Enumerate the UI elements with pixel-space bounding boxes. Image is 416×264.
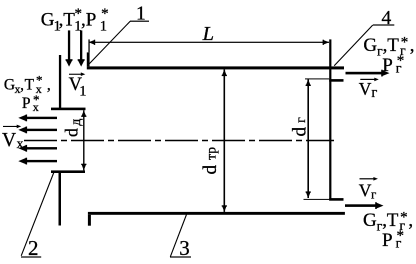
svg-text:G: G (4, 77, 15, 94)
d_g top arrowhead (306, 79, 311, 86)
label Pg* top right (382, 53, 404, 77)
svg-text:,: , (20, 77, 24, 94)
svg-text:G: G (363, 35, 377, 56)
svg-text:G: G (363, 210, 377, 231)
leader line for label 1 (89, 21, 130, 64)
svg-text:T: T (25, 77, 35, 94)
svg-text:P: P (382, 55, 393, 76)
svg-text:P: P (382, 230, 393, 251)
label Vg top right (359, 79, 378, 101)
intake lower wall (shell 2) (59, 173, 62, 226)
vector bar over Vx (3, 125, 21, 129)
svg-text:х: х (17, 136, 24, 151)
label V1 (69, 75, 87, 99)
exit flow right arrow top (346, 70, 390, 77)
leader line for label 4 (334, 25, 373, 66)
svg-text:V: V (359, 79, 372, 99)
L extension line left (88, 39, 89, 52)
secondary flow left arrow 2 (18, 127, 57, 134)
label 1 underline (130, 21, 149, 22)
vector bar over V1 (69, 72, 85, 76)
svg-text:1: 1 (79, 83, 86, 99)
exit lip bottom (329, 198, 343, 201)
end plate 4 (329, 39, 331, 200)
svg-text:L: L (202, 23, 214, 45)
svg-text:,: , (408, 210, 413, 231)
svg-text:2: 2 (28, 236, 39, 260)
intake bottom lip (51, 170, 85, 173)
svg-text:*: * (36, 72, 43, 87)
d_tr bottom arrowhead (222, 205, 227, 212)
svg-text:3: 3 (179, 236, 190, 260)
svg-text:г: г (371, 186, 376, 201)
exit lip bottom extension (304, 199, 330, 200)
primary flow down arrow a (66, 30, 73, 66)
label d_tr rotated (200, 147, 221, 175)
mixing tube bottom wall (3) (88, 212, 345, 215)
svg-text:,: , (410, 35, 415, 56)
svg-text:*: * (33, 92, 40, 107)
secondary flow left arrow 4 (18, 158, 57, 165)
L right arrowhead (323, 40, 330, 45)
dimension d_g line (307, 79, 309, 198)
label 2 underline (21, 256, 41, 257)
leader line for label 2 (21, 172, 54, 256)
label d_d rotated (62, 119, 84, 137)
mixing tube top wall (87, 66, 344, 69)
svg-text:*: * (397, 228, 405, 244)
label Gg,Tg*, top right (363, 34, 414, 59)
svg-text:V: V (359, 181, 372, 201)
vector bar over Vg bottom right (360, 177, 378, 181)
label G1,T1*,P1* (41, 6, 109, 34)
dimension L line (89, 42, 330, 43)
d_d bottom arrowhead (81, 164, 86, 171)
leader line for label 3 (170, 215, 186, 257)
primary flow down arrow b (78, 30, 85, 66)
label Vx (2, 130, 24, 151)
svg-text:4: 4 (382, 8, 392, 29)
exit lip top extension (305, 78, 329, 79)
exit lip top (329, 79, 343, 82)
d_d top arrowhead (81, 110, 86, 117)
d_tr top arrowhead (222, 69, 227, 76)
svg-text:*: * (101, 6, 109, 22)
label 3 underline (170, 256, 191, 257)
svg-text:P: P (22, 95, 31, 112)
svg-text:,: , (47, 77, 51, 94)
secondary flow left arrow 3 (18, 145, 57, 152)
label Pg* bottom right (382, 228, 404, 251)
label Vg bottom right (359, 181, 377, 202)
mixing tube top-left lip (87, 52, 90, 66)
L left arrowhead (89, 40, 96, 45)
label Gx,Tx*, left (4, 72, 51, 95)
label Px* left (22, 92, 40, 114)
svg-text:V: V (2, 130, 16, 151)
label 4 underline (373, 24, 394, 25)
svg-text:dтр: dтр (200, 147, 221, 175)
svg-text:*: * (397, 53, 405, 69)
exit flow right arrow bottom (345, 202, 384, 209)
svg-text:*: * (400, 209, 408, 225)
secondary flow left arrow 1 (18, 115, 57, 122)
svg-text:P: P (86, 10, 97, 31)
dimension d_d line (83, 110, 84, 170)
intake top lip (51, 108, 86, 111)
vector bar over Vg top right (360, 78, 379, 82)
axis centerline (24, 140, 334, 142)
nozzle 1 left wall (59, 55, 61, 108)
label Gg,Tg*, bottom right (363, 209, 413, 234)
d_g bottom arrowhead (306, 191, 311, 198)
svg-text:г: г (371, 85, 377, 101)
label d_g rotated (289, 117, 310, 137)
mixing tube bottom-left lip (88, 215, 91, 226)
dimension d_tr line (224, 69, 226, 212)
svg-text:1: 1 (136, 3, 146, 24)
svg-text:*: * (401, 34, 409, 50)
